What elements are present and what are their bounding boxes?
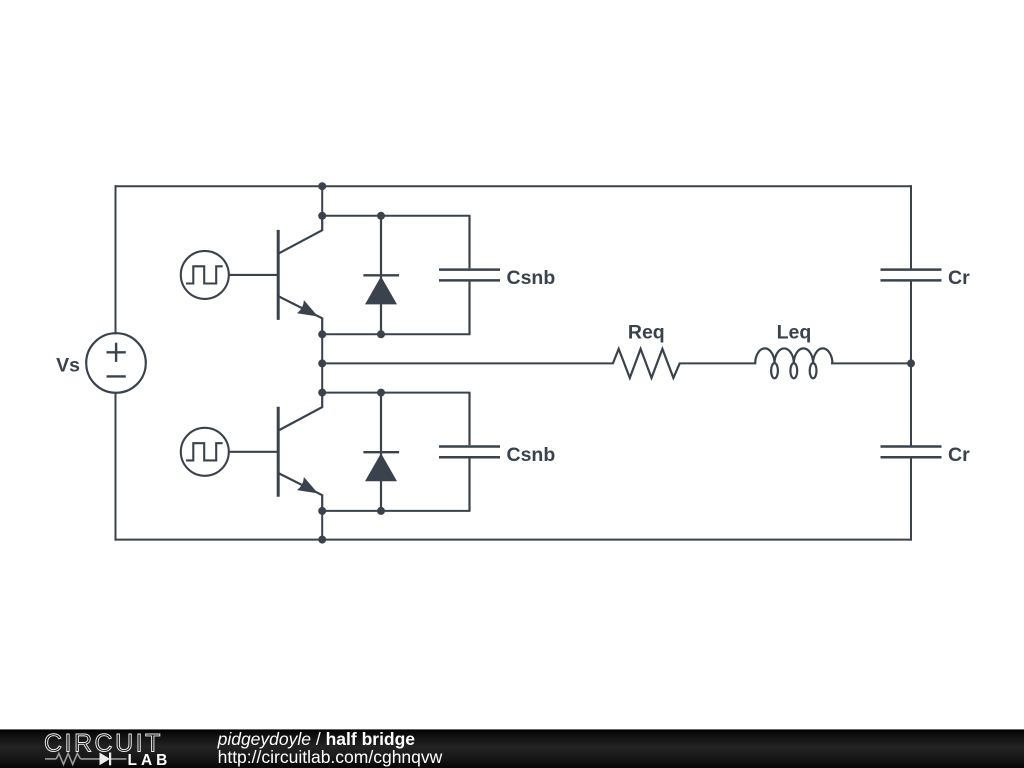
wire right rail upper <box>910 186 912 269</box>
wire node column bottom <box>321 511 323 540</box>
svg-text:Cr: Cr <box>948 267 970 289</box>
footer bar <box>0 729 1024 768</box>
wire cell2 bottom rail <box>322 510 469 512</box>
wire left rail upper <box>115 186 117 333</box>
svg-text:pidgeydoyle / half bridge: pidgeydoyle / half bridge <box>217 729 416 749</box>
svg-text:Cr: Cr <box>948 444 970 466</box>
wire left rail lower <box>115 393 117 540</box>
svg-text:Vs: Vs <box>56 354 80 376</box>
capacitor Cr (top) <box>881 270 942 281</box>
diode D2 (bottom) <box>363 393 399 511</box>
resistor Req <box>613 349 680 378</box>
node D2 cathode <box>377 389 385 397</box>
wire top rail <box>116 185 912 187</box>
capacitor Cr (bottom) <box>881 447 942 458</box>
capacitor Csnb (top snubber) <box>439 216 500 334</box>
svg-text:Csnb: Csnb <box>507 444 556 466</box>
node Q1 collector <box>318 212 326 220</box>
svg-text:LAB: LAB <box>128 752 172 768</box>
svg-text:http://circuitlab.com/cghnqvw: http://circuitlab.com/cghnqvw <box>218 747 443 767</box>
transistor Q1 (top NPN) <box>278 216 322 334</box>
diode D1 (top) <box>363 216 399 334</box>
svg-text:Req: Req <box>628 322 665 344</box>
CircuitLab logo schematic <box>45 753 126 764</box>
wire node column mid <box>321 334 323 392</box>
node D1 cathode <box>377 212 385 220</box>
square-wave source V2 (top) <box>181 251 278 299</box>
wire cell1 bottom rail <box>322 333 469 335</box>
transistor Q2 (bottom NPN) <box>278 393 322 511</box>
node D2 anode <box>377 507 385 515</box>
wire bottom rail <box>116 539 912 541</box>
svg-text:Csnb: Csnb <box>507 267 556 289</box>
wire right rail lower <box>910 458 912 540</box>
node bottom rail junction <box>318 536 326 544</box>
inductor Leq <box>755 348 832 378</box>
logo diode <box>100 753 111 766</box>
wire Leq to right rail <box>832 362 911 364</box>
wire cell1 collector rail <box>322 215 469 217</box>
square-wave source V3 (bottom) <box>181 428 278 476</box>
node D1 anode <box>377 330 385 338</box>
wire mid node horizontal <box>322 362 613 364</box>
wire right rail middle <box>910 281 912 446</box>
node mid output <box>318 359 326 367</box>
node Q1 emitter rail <box>318 330 326 338</box>
wire cell2 collector rail <box>322 392 469 394</box>
svg-text:Leq: Leq <box>777 322 812 344</box>
wire Req to Leq <box>680 362 756 364</box>
node Q2 collector <box>318 389 326 397</box>
wire node column top <box>321 186 323 216</box>
voltage source Vs <box>86 333 146 393</box>
node top rail junction <box>318 182 326 190</box>
node Q2 emitter rail <box>318 507 326 515</box>
capacitor Csnb (bottom snubber) <box>439 393 500 511</box>
node right rail mid <box>907 359 915 367</box>
